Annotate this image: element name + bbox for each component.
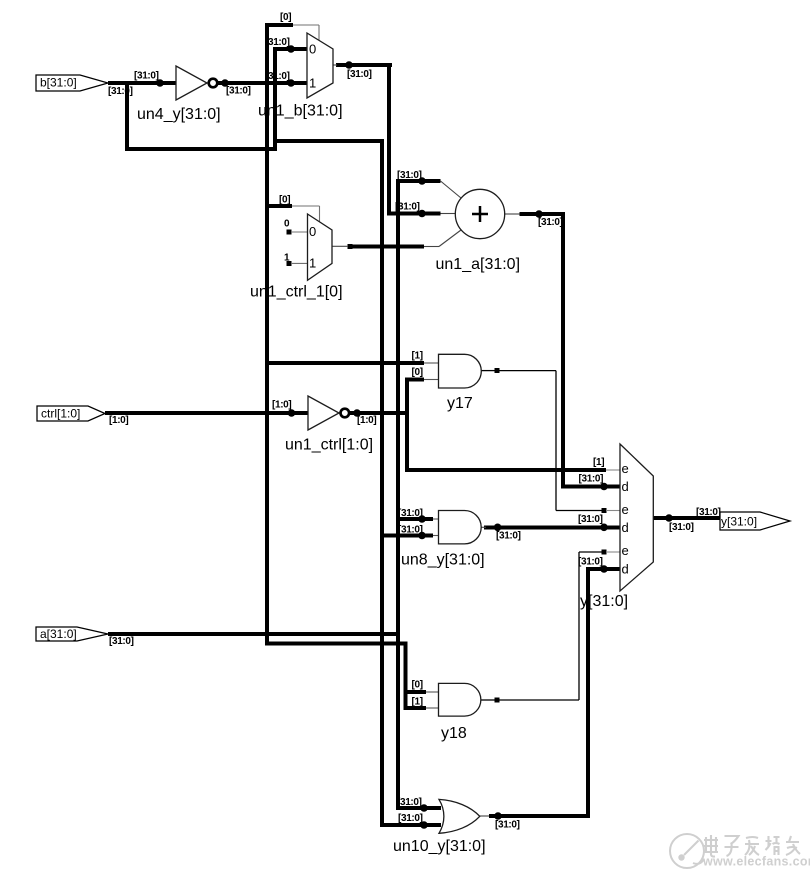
svg-text:[31:0]: [31:0] (579, 474, 604, 485)
svg-text:1: 1 (309, 256, 316, 271)
svg-text:e: e (622, 502, 629, 517)
svg-text:[1]: [1] (593, 457, 604, 468)
svg-text:un1_a[31:0]: un1_a[31:0] (436, 256, 521, 273)
svg-text:y17: y17 (447, 395, 473, 412)
svg-text:[1]: [1] (412, 350, 423, 361)
svg-text:d: d (622, 520, 629, 535)
svg-text:[0]: [0] (412, 680, 423, 691)
svg-text:[31:0]: [31:0] (578, 514, 603, 525)
svg-text:[31:0]: [31:0] (669, 522, 694, 533)
svg-text:[0]: [0] (280, 12, 291, 23)
svg-text:[31:0]: [31:0] (226, 86, 251, 97)
svg-text:1: 1 (309, 76, 316, 91)
svg-text:[31:0]: [31:0] (134, 71, 159, 82)
svg-text:www.elecfans.com: www.elecfans.com (702, 855, 810, 869)
svg-text:un8_y[31:0]: un8_y[31:0] (401, 552, 485, 569)
svg-text:[31:0]: [31:0] (496, 530, 521, 541)
svg-text:0: 0 (284, 219, 290, 230)
svg-text:[31:0]: [31:0] (398, 813, 423, 824)
svg-text:[31:0]: [31:0] (538, 217, 563, 228)
svg-text:un4_y[31:0]: un4_y[31:0] (137, 106, 221, 123)
svg-text:[31:0]: [31:0] (109, 636, 134, 647)
svg-text:0: 0 (309, 224, 316, 239)
svg-text:un1_ctrl_1[0]: un1_ctrl_1[0] (250, 284, 343, 301)
svg-text:[31:0]: [31:0] (578, 556, 603, 567)
svg-text:e: e (622, 543, 629, 558)
svg-text:[1:0]: [1:0] (357, 415, 376, 426)
svg-text:b[31:0]: b[31:0] (40, 76, 77, 90)
svg-text:ctrl[1:0]: ctrl[1:0] (41, 407, 80, 421)
svg-text:un10_y[31:0]: un10_y[31:0] (393, 838, 486, 855)
svg-text:[1:0]: [1:0] (109, 415, 128, 426)
svg-text:0: 0 (309, 42, 316, 57)
svg-text:un1_ctrl[1:0]: un1_ctrl[1:0] (285, 437, 373, 454)
svg-text:un1_b[31:0]: un1_b[31:0] (258, 103, 343, 120)
svg-text:y[31:0]: y[31:0] (721, 515, 757, 529)
svg-text:[0]: [0] (412, 367, 423, 378)
svg-text:y18: y18 (441, 725, 467, 742)
svg-text:d: d (622, 479, 629, 494)
svg-text:[1:0]: [1:0] (272, 400, 291, 411)
svg-text:a[31:0]: a[31:0] (40, 627, 77, 641)
svg-text:[1]: [1] (412, 697, 423, 708)
svg-text:e: e (622, 461, 629, 476)
svg-text:[0]: [0] (279, 195, 290, 206)
svg-text:d: d (622, 561, 629, 576)
svg-text:[31:0]: [31:0] (495, 819, 520, 830)
svg-text:[31:0]: [31:0] (347, 69, 372, 80)
